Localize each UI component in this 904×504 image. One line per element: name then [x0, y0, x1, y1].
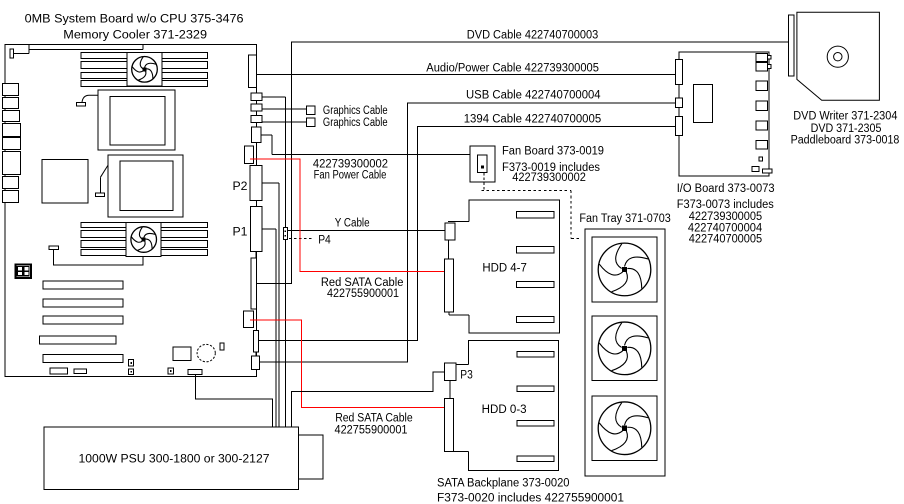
upper memory slot 1 — [81, 53, 207, 59]
rear I/O connector 5 — [3, 138, 21, 150]
PCI slot 4 — [39, 336, 116, 344]
connector A-B link — [255, 352, 257, 356]
HDD 0-3 slot bar 2 — [517, 386, 554, 392]
paddleboard — [789, 15, 794, 76]
svg-text:0MB System Board w/o CPU 375-3: 0MB System Board w/o CPU 375-3476 — [25, 14, 244, 26]
svg-text:DVD Cable 422740700003: DVD Cable 422740700003 — [467, 30, 598, 42]
connector P3 — [445, 363, 457, 380]
PCI slot 1 — [43, 281, 123, 289]
graphics cable connector 2 — [307, 118, 316, 127]
connector P4 on stem — [283, 228, 287, 240]
fan tray fan 1 frame — [592, 237, 657, 302]
edge connector C1 — [251, 93, 262, 100]
HDD0-3 bottom bridge — [453, 450, 468, 452]
upper memory cooler fan — [127, 53, 162, 87]
HDD 4-7 slot bar 2 — [517, 247, 554, 253]
HDD4-7 bottom bridge — [449, 314, 469, 316]
svg-text:422739300002: 422739300002 — [512, 172, 586, 184]
battery (dashed circle) — [197, 344, 215, 361]
south bridge chip — [173, 347, 191, 361]
I/O left connector 3 (1394) — [675, 116, 682, 135]
svg-text:DVD Writer 371-2304: DVD Writer 371-2304 — [793, 111, 898, 123]
CPU socket 2 inner — [120, 161, 173, 211]
svg-text:Fan Board 373-0019: Fan Board 373-0019 — [502, 146, 604, 158]
PSU to P3 wire — [291, 372, 444, 427]
connector P2 — [250, 166, 262, 201]
svg-text:Paddleboard 373-0018: Paddleboard 373-0018 — [791, 134, 900, 146]
rear I/O connector 2 — [3, 98, 19, 109]
svg-text:1000W PSU 300-1800 or 300-2127: 1000W PSU 300-1800 or 300-2127 — [79, 454, 270, 466]
svg-text:Memory Cooler 371-2329: Memory Cooler 371-2329 — [63, 30, 207, 42]
I/O bottom connector a — [752, 166, 759, 171]
rear I/O connector 3 — [3, 111, 20, 122]
upper memory slot 2 — [81, 62, 207, 69]
board top edge riser — [142, 45, 144, 50]
lower memory slot 1 — [81, 223, 207, 228]
svg-text:Red SATA Cable: Red SATA Cable — [335, 412, 413, 424]
svg-text:HDD 4-7: HDD 4-7 — [482, 262, 526, 274]
edge connector C2 — [251, 104, 262, 111]
HDD 4-7 slot bar 4 — [517, 316, 554, 322]
I/O bottom connector b — [763, 169, 772, 173]
HDD 0-3 backplane box — [469, 340, 559, 470]
long edge connector — [251, 258, 257, 309]
P1 to PSU wire — [262, 228, 276, 230]
system board outline — [5, 45, 257, 377]
svg-text:P1: P1 — [233, 227, 248, 239]
I/O right connector 5 — [756, 121, 768, 130]
C1 to PSU / Y-cable stem wire — [262, 96, 285, 98]
board top edge inner line — [29, 49, 143, 51]
svg-text:Graphics Cable: Graphics Cable — [323, 117, 388, 129]
USB cable wire — [259, 103, 675, 362]
svg-text:Y Cable: Y Cable — [335, 218, 370, 230]
Y cable connector — [445, 223, 455, 240]
rear I/O connector 7 — [3, 177, 19, 189]
PCI slot 5 — [43, 355, 123, 363]
HDD 4-7 backplane box — [469, 200, 560, 333]
svg-text:1394 Cable 422740700005: 1394 Cable 422740700005 — [464, 113, 602, 125]
fan power connector C4 — [252, 127, 262, 143]
lower memory slot 2 — [81, 231, 207, 238]
flag link wire — [14, 53, 30, 55]
lower fan power wire — [53, 249, 143, 265]
graphics cable wire 1 — [262, 108, 306, 110]
fan header wire with connector (CPU2) — [95, 193, 104, 196]
bottom connector 2 — [74, 369, 86, 374]
PCI slot 2 — [43, 299, 123, 307]
I/O left connector 2 (USB) — [675, 98, 682, 108]
jumper with dot — [168, 368, 173, 374]
P2 to PSU wire — [262, 182, 279, 184]
board corner flag connector — [10, 49, 14, 58]
CPU socket 1 inner — [110, 97, 165, 146]
board power to PSU wire — [195, 375, 272, 428]
svg-text:Audio/Power Cable 4227393000: Audio/Power Cable 422739300005 — [426, 62, 599, 74]
jumper block pair — [128, 360, 133, 366]
red SATA connector (HDD 0-3) — [445, 398, 454, 451]
HDD0-3 top bridge — [456, 364, 468, 366]
DVD spindle circles — [827, 46, 848, 67]
graphics cable connector 1 — [307, 106, 316, 115]
diagnostic LED display — [16, 265, 32, 279]
fan power header — [49, 246, 59, 249]
svg-text:P4: P4 — [318, 235, 331, 247]
svg-text:P3: P3 — [460, 369, 473, 381]
rear I/O connector 1 — [3, 84, 19, 96]
chipset heatsink square — [42, 160, 88, 204]
red SATA source connector R2 — [244, 311, 254, 327]
svg-text:Red SATA Cable: Red SATA Cable — [321, 277, 404, 289]
HDD4-7 top bridge — [448, 221, 469, 223]
fan board dashed route — [483, 173, 485, 190]
DVD cable wire — [257, 42, 791, 283]
I/O right connector 2 with nub — [756, 62, 768, 71]
upper memory slot 4 — [81, 81, 207, 87]
P4 dashed pointer — [289, 238, 313, 240]
red SATA cable 1 — [250, 159, 445, 272]
I/O left connector 1 (audio) — [675, 60, 682, 85]
svg-text:422740700005: 422740700005 — [689, 233, 763, 245]
I/O board box — [679, 52, 769, 176]
connector link — [449, 380, 451, 398]
graphics cable wire 2 — [262, 121, 306, 123]
I/O right connector 1 with nub — [756, 53, 768, 61]
PSU power header — [188, 369, 202, 374]
HDD 4-7 slot bar 3 — [517, 281, 554, 287]
PCI slot 3 — [43, 316, 123, 324]
upper memory slot 3 — [81, 73, 207, 79]
lower memory slot 4 — [81, 250, 207, 256]
I/O right connector 4 — [756, 101, 768, 110]
rear I/O connector 6 — [3, 152, 21, 175]
1394 cable wire — [259, 127, 676, 341]
svg-text:USB Cable 422740700004: USB Cable 422740700004 — [466, 90, 601, 102]
PSU box — [44, 427, 298, 489]
svg-text:Graphics Cable: Graphics Cable — [323, 105, 388, 117]
red SATA source connector R1 — [244, 146, 253, 163]
red SATA connector (HDD 4-7) — [445, 259, 454, 312]
CPU socket 1 outer — [98, 90, 175, 150]
rear I/O connector 4 — [3, 124, 21, 137]
fan tray fan 3 frame — [592, 396, 657, 461]
fan board box — [470, 146, 495, 182]
connector link — [447, 240, 449, 259]
fan board dot — [482, 166, 484, 168]
svg-text:P2: P2 — [233, 181, 248, 193]
svg-text:Fan Power Cable: Fan Power Cable — [314, 170, 387, 182]
P1 to long connector link — [255, 252, 257, 259]
CPU socket 2 outer — [108, 155, 183, 217]
svg-text:I/O Board 373-0073: I/O Board 373-0073 — [677, 183, 775, 195]
lower memory cooler fan — [126, 223, 161, 257]
edge connector C3 — [251, 115, 262, 122]
edge connector T1 (top) — [248, 55, 256, 88]
svg-text:F373-0020 includes 422755900: F373-0020 includes 422755900001 — [437, 493, 624, 504]
PSU side tab — [298, 435, 323, 479]
audio/power cable wire — [256, 74, 675, 76]
svg-text:SATA Backplane 373-0020: SATA Backplane 373-0020 — [437, 478, 570, 490]
flag link riser — [28, 45, 30, 54]
small vertical header — [220, 343, 224, 350]
I/O right connector 6 — [756, 141, 768, 150]
red SATA cable 2 — [250, 320, 445, 408]
connector P1 — [250, 207, 262, 252]
svg-text:HDD 0-3: HDD 0-3 — [482, 404, 527, 416]
svg-text:422755900001: 422755900001 — [327, 288, 399, 300]
lower memory slot 3 — [81, 241, 207, 248]
connector link lower — [448, 312, 450, 315]
edge connector A — [253, 330, 258, 352]
Y cable wire — [288, 230, 446, 232]
HDD 0-3 slot bar 1 — [517, 351, 554, 357]
svg-text:422755900001: 422755900001 — [335, 424, 408, 436]
I/O small square — [759, 157, 763, 161]
bottom connector 1 — [50, 368, 67, 374]
HDD 4-7 slot bar 1 — [517, 212, 554, 218]
edge connector B — [251, 356, 259, 369]
svg-text:F373-0073 includes: F373-0073 includes — [677, 199, 774, 211]
DVD writer box — [797, 12, 880, 100]
HDD 0-3 slot bar 4 — [517, 456, 554, 462]
fan power cable wire — [261, 134, 272, 136]
svg-text:422739300005: 422739300005 — [689, 211, 763, 223]
fan tray fan 2 frame — [592, 316, 657, 381]
fan board inner connector — [477, 155, 487, 173]
fan tray box — [585, 229, 665, 476]
I/O right connector 3 — [756, 81, 768, 90]
I/O board inner rectangle — [693, 85, 712, 123]
rear I/O connector 8 — [3, 191, 19, 203]
HDD 0-3 slot bar 3 — [517, 420, 554, 426]
svg-text:Fan Tray 371-0703: Fan Tray 371-0703 — [579, 213, 670, 225]
fan header wire with connector (upper) — [76, 102, 85, 106]
